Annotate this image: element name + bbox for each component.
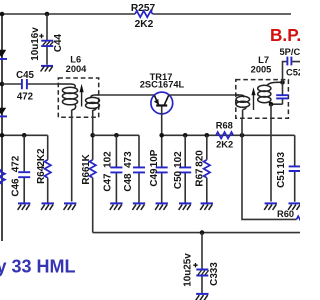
svg-text:2004: 2004 [66, 64, 88, 74]
svg-text:C49: C49 [149, 168, 160, 187]
node C46 tap [22, 133, 27, 138]
node bus2 left [90, 133, 95, 138]
transistor TR17 2SC1674L [140, 72, 185, 114]
resistor R67 820 [195, 135, 210, 202]
svg-text:C47: C47 [102, 173, 113, 192]
svg-text:10P: 10P [149, 149, 160, 167]
capacitor C45 472 [2, 70, 58, 103]
svg-text:473: 473 [123, 151, 134, 168]
wire TR17 base lead [161, 106, 163, 166]
svg-text:2K2: 2K2 [216, 140, 233, 150]
svg-text:2SC1674L: 2SC1674L [140, 80, 185, 90]
node C45 tap [0, 82, 4, 87]
wire bus3 [162, 134, 295, 136]
transformer L6 primary coil [58, 84, 77, 110]
wire L6 secondary down / R66 branch [92, 110, 94, 160]
ground C47 [110, 203, 123, 210]
transformer L6 box [58, 78, 98, 117]
svg-text:C50: C50 [173, 170, 184, 189]
node C44 tap [45, 12, 50, 17]
resistor R68 2K2 [216, 121, 233, 150]
svg-text:2K2: 2K2 [135, 19, 154, 30]
capacitor C46 472 [10, 135, 30, 202]
ground C51 [288, 203, 301, 210]
wire L6 to TR17 emitter [97, 94, 154, 96]
capacitor C333 (electrolytic 10u25v) [182, 233, 220, 293]
node R67 tap [205, 133, 210, 138]
svg-text:C51: C51 [276, 169, 287, 188]
wire TR17 collector to L7 [169, 94, 239, 96]
svg-text:1K: 1K [81, 153, 92, 166]
svg-text:103: 103 [276, 151, 287, 168]
resistor R66 1K [81, 153, 96, 232]
ground L6 primary [64, 203, 77, 210]
svg-text:R64: R64 [36, 165, 47, 184]
node C50 tap [183, 133, 188, 138]
node C333 tap [200, 230, 205, 235]
svg-text:472: 472 [10, 155, 21, 172]
wire bus2 [93, 134, 139, 136]
wire left vertical rail [1, 14, 3, 241]
transformer L7 arrow [251, 87, 255, 110]
ground C50 [179, 203, 192, 210]
node L7 secondary top [280, 80, 285, 85]
capacitor L7 internal [271, 82, 288, 104]
node L7 secondary bottom [269, 102, 274, 107]
transformer L6 label [66, 55, 88, 74]
svg-text:5P/C5: 5P/C5 [280, 47, 301, 57]
svg-text:102: 102 [102, 151, 113, 168]
ground L7 secondary [264, 203, 277, 210]
svg-text:C52: C52 [286, 68, 300, 78]
capacitor C49 10P [149, 149, 168, 202]
svg-text:C333: C333 [209, 262, 220, 286]
capacitor C52 5P top-right [280, 47, 306, 83]
capacitor C48 473 [123, 135, 145, 202]
svg-text:C44: C44 [53, 33, 64, 52]
capacitor C44 (electrolytic 10u16v) [30, 14, 64, 65]
transformer L6 arrow [80, 84, 84, 107]
svg-text:C46: C46 [10, 178, 21, 197]
svg-text:2K2: 2K2 [36, 148, 47, 167]
resistor R257 [131, 3, 156, 30]
resistor R60 (cut off) [277, 209, 305, 223]
node L7 primary tap [240, 133, 245, 138]
transformer L7 label [251, 55, 272, 75]
capacitor C51 103 [276, 135, 301, 202]
transformer L7 primary coil [236, 95, 250, 109]
node top-left corner [0, 12, 4, 17]
svg-text:R68: R68 [216, 121, 233, 131]
svg-text:C45: C45 [16, 70, 34, 81]
svg-text:R66: R66 [81, 166, 92, 185]
wire L7 primary lead down to R60 [242, 110, 297, 220]
svg-text:10u25v: 10u25v [182, 253, 193, 287]
svg-text:820: 820 [195, 150, 206, 167]
ground C49 [155, 203, 168, 210]
svg-text:472: 472 [17, 91, 33, 102]
node C47 tap [114, 133, 119, 138]
transformer L7 secondary coil [258, 82, 283, 104]
svg-text:L7: L7 [258, 55, 269, 65]
resistor R64 2K2 [36, 135, 51, 202]
svg-text:102: 102 [173, 151, 184, 168]
resistor left edge (cut off) [0, 170, 5, 184]
svg-text:R67: R67 [195, 168, 206, 187]
svg-text:y 33 HML: y 33 HML [0, 257, 76, 277]
svg-text:10u16v: 10u16v [30, 27, 41, 61]
ground C48 [132, 203, 145, 210]
capacitor C50 102 [173, 135, 191, 202]
node C49 tap [159, 133, 164, 138]
wire L6 primary bottom lead [71, 110, 73, 202]
ground R64 [41, 203, 54, 210]
capacitor C47 102 [102, 135, 122, 202]
wire L7 secondary bottom lead [270, 104, 272, 201]
svg-text:C48: C48 [123, 173, 134, 192]
transformer L7 box [236, 80, 289, 119]
ground C44 [41, 66, 53, 72]
wire top horizontal [2, 13, 291, 15]
svg-text:2005: 2005 [251, 65, 272, 75]
diode D1 (left edge, cut off) [0, 50, 7, 59]
wire bottom rail [93, 232, 300, 234]
ground C46 [18, 203, 31, 210]
ground R67 [200, 203, 213, 210]
wire bus1 [2, 134, 48, 136]
ground C333 [196, 294, 209, 300]
diode D2 (left edge, cut off) [0, 108, 7, 117]
node bus1 left [0, 133, 4, 138]
transformer L6 secondary coil [86, 95, 100, 110]
svg-text:R60: R60 [277, 209, 294, 219]
svg-text:B.P.: B.P. [270, 25, 300, 45]
